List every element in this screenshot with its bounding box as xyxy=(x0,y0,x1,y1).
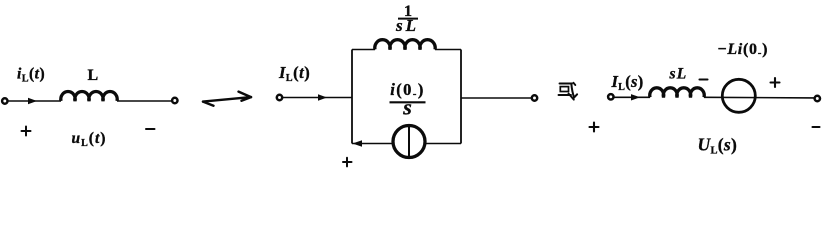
svg-text:IL(s): IL(s) xyxy=(611,72,644,93)
svg-text:UL(s): UL(s) xyxy=(698,134,738,156)
svg-text:iL(t): iL(t) xyxy=(17,66,45,85)
svg-text:sL: sL xyxy=(395,16,419,35)
svg-text:−Li(0-): −Li(0-) xyxy=(718,41,769,59)
svg-text:s: s xyxy=(402,95,412,120)
svg-text:uL(t): uL(t) xyxy=(72,130,107,149)
svg-text:sL: sL xyxy=(669,66,688,83)
svg-text:IL(t): IL(t) xyxy=(278,63,310,84)
svg-text:L: L xyxy=(88,67,99,84)
